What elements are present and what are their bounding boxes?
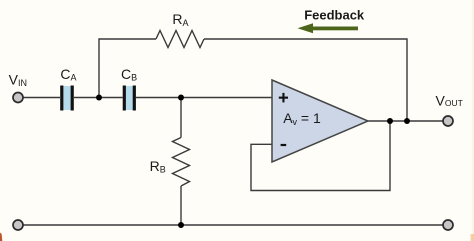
svg-text:Feedback: Feedback (304, 7, 365, 22)
svg-text:Av = 1: Av = 1 (283, 110, 321, 127)
